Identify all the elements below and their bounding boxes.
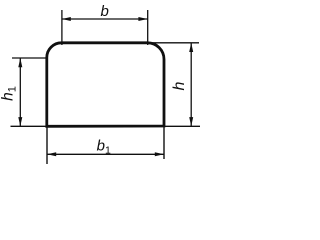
- svg-text:b: b: [101, 3, 109, 20]
- extension line b left: [61, 10, 63, 45]
- extension line h top: [150, 42, 199, 44]
- dimension line h: [189, 43, 193, 127]
- extension line b1 left: [46, 127, 48, 164]
- extension line b1 right: [163, 127, 165, 159]
- dimension line h1: [18, 58, 22, 126]
- dimension line b1: [47, 152, 164, 156]
- extension line h1 bottom: [11, 125, 47, 127]
- dimension line b: [62, 17, 148, 21]
- extension line b right: [147, 10, 149, 45]
- svg-text:h: h: [171, 81, 188, 90]
- extension line h bottom: [165, 125, 200, 127]
- label h1: [0, 86, 18, 101]
- extension line h1 top: [12, 57, 47, 59]
- profile outline: [47, 43, 164, 127]
